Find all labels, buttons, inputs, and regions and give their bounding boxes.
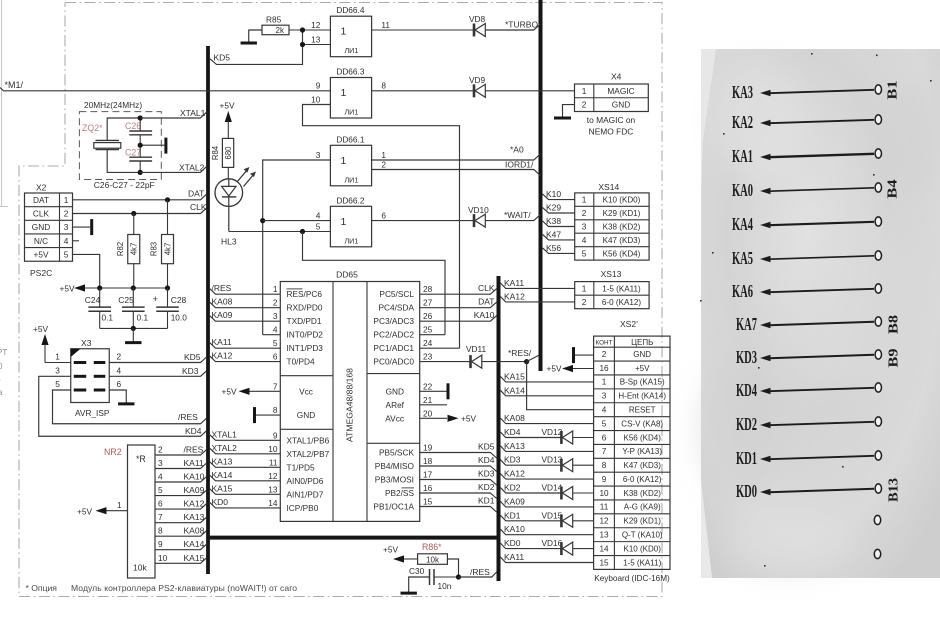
bottom note [26,583,298,593]
svg-text:K10: K10 [546,189,561,199]
svg-text:4k7: 4k7 [130,243,139,256]
svg-text:*RES/: *RES/ [508,348,532,358]
svg-text:4: 4 [316,210,321,220]
wire KD1 to XS2 row [500,510,593,527]
svg-text:KD1: KD1 [736,448,757,468]
svg-text:4: 4 [64,236,69,246]
svg-text:+5V: +5V [383,545,398,555]
svg-text:VD14: VD14 [542,483,563,493]
svg-text:KD2: KD2 [736,414,757,434]
diode VD10 [468,205,489,227]
svg-text:+5V: +5V [60,284,75,294]
svg-text:KD0: KD0 [212,497,229,507]
svg-text:C27: C27 [125,148,141,158]
connector XS14 [575,182,649,260]
resistor R83 [150,200,174,288]
svg-text:4: 4 [273,325,278,335]
svg-text:VD12: VD12 [542,427,563,437]
svg-text:*M1/: *M1/ [5,80,24,90]
svg-text:ЛИ1: ЛИ1 [344,108,358,117]
svg-text:KD4: KD4 [478,455,495,465]
svg-text:KA08: KA08 [212,297,233,307]
svg-text:9: 9 [602,475,607,484]
svg-text:KA12: KA12 [212,351,233,361]
svg-text:10: 10 [599,489,609,498]
svg-text:XS2’: XS2’ [620,319,638,329]
wire KA10 (DD65) to XS2 bus [420,310,497,321]
capacitor C28 (polar) [153,288,188,328]
diode VD11 [466,344,487,368]
wire KA11 DD65 [210,337,280,348]
overline SS [402,487,415,489]
svg-text:PC5/SCL: PC5/SCL [379,289,414,299]
wire KA08 to XS2 row [500,413,593,424]
wire DD66.3 pin10 to DD65 pin24 [303,105,460,349]
svg-text:12: 12 [599,517,609,526]
DD65 pin 1 RES/PC6 [273,284,323,299]
right bus (vertical) [539,0,543,371]
svg-text:RES/PC6: RES/PC6 [287,289,323,299]
svg-text:+5V: +5V [222,386,237,396]
DD65 pin 15 PB1/OC1A [373,497,432,512]
svg-text:KA2: KA2 [732,112,753,132]
wire X2 +5V [73,254,100,288]
svg-text:6-0 (KA12): 6-0 (KA12) [602,298,641,307]
wire CLK (DD65) to XS2 bus [420,283,497,294]
svg-text:5: 5 [55,379,60,389]
wire KD0 DD65 [210,497,280,508]
svg-text:11: 11 [269,457,278,467]
scanned page signal row KD2 [736,414,882,434]
svg-text:C24: C24 [85,295,101,305]
svg-text:KA09: KA09 [504,496,525,506]
svg-text:KA11: KA11 [212,337,232,347]
svg-text:1-5 (KA11): 1-5 (KA11) [602,284,641,293]
svg-text:PC4/SDA: PC4/SDA [378,303,414,313]
DD65 pin 9 XTAL1/PB6 [273,430,330,445]
svg-text:KA1: KA1 [732,146,753,166]
svg-text:13: 13 [599,530,609,539]
svg-text:4: 4 [116,365,121,375]
DD65 pin 12 AIN0/PD6 [268,471,324,486]
svg-text:15: 15 [599,558,609,567]
svg-text:K10 (KD0): K10 (KD0) [603,196,641,205]
svg-text:KA3: KA3 [732,82,753,102]
svg-text:14: 14 [599,544,609,553]
svg-text:ЛИ1: ЛИ1 [344,46,358,55]
svg-text:H-Ent (KA14): H-Ent (KA14) [618,392,666,401]
wire KA14 (NR2 pin 9) [155,539,207,550]
svg-text:XS13: XS13 [601,269,622,279]
svg-text:5: 5 [64,249,69,259]
connector X2 [25,183,73,279]
svg-text:Keyboard (IDC-16M): Keyboard (IDC-16M) [594,574,670,583]
svg-text:+5V: +5V [34,249,49,259]
svg-text:INT1/PD3: INT1/PD3 [287,343,324,353]
wire KA14 DD65 [210,470,280,481]
svg-text:B4: B4 [885,179,900,199]
svg-text:1: 1 [117,500,122,510]
wire DD65 pin24 stub [420,347,460,349]
svg-text:DAT: DAT [188,189,204,199]
svg-text:/RES: /RES [470,567,490,577]
svg-text:B13: B13 [886,478,901,502]
resistor R85 [249,15,289,42]
wire R86 to /RES node [447,559,458,577]
svg-text:+5V: +5V [77,507,92,517]
svg-text:DD66.1: DD66.1 [336,134,365,144]
svg-text:CLK: CLK [478,283,495,293]
wire KA12 to XS13 [500,291,574,302]
svg-text:4: 4 [602,405,607,414]
wire DD65 pin23 to VD11 [420,361,471,363]
wire KD2 (DD65) to XS2 bus [420,482,497,499]
capacitor C25 [118,288,148,328]
DD65 pin 11 T1/PD5 [269,457,315,472]
svg-text:8: 8 [158,526,163,536]
svg-text:9: 9 [316,81,321,91]
wire KA09 DD65 [210,310,280,321]
DD65 pin 2 RXD/PD0 [273,298,323,313]
ground (DD65 pin22) [420,383,448,399]
svg-text:VD9: VD9 [469,75,486,85]
wire KA11 to XS2 row [500,552,593,563]
svg-text:2: 2 [273,298,278,308]
svg-text:1: 1 [55,352,60,362]
connector X3 AVR_ISP [55,338,121,418]
svg-text:5: 5 [582,248,587,258]
svg-text:Q-T (KA10): Q-T (KA10) [622,530,663,539]
wire KD5 (DD65) to XS2 bus [420,442,497,459]
node XTAL2 [138,143,207,175]
bus link (horizontal) [207,536,501,540]
svg-text:3: 3 [273,311,278,321]
wire /RES DD65 [210,283,280,294]
svg-text:ARef: ARef [386,400,405,410]
svg-text:+5V: +5V [220,101,235,111]
svg-text:KD2: KD2 [478,482,495,492]
svg-text:GND: GND [612,100,630,110]
svg-text:1: 1 [340,216,346,228]
svg-text:IORD1/: IORD1/ [505,159,534,169]
wire KA15 to XS2 row [500,371,593,382]
svg-text:7: 7 [273,381,278,391]
svg-text:VD16: VD16 [542,538,563,548]
svg-text:KD0: KD0 [504,538,521,548]
+5V feed R84 [220,101,235,139]
svg-text:3: 3 [158,458,163,468]
svg-text:B-Sp (KA15): B-Sp (KA15) [620,378,665,387]
wire KA13 DD65 [210,456,280,467]
svg-text:5: 5 [158,485,163,495]
svg-text:KA15: KA15 [184,553,205,563]
wire KD4 (DD65) to XS2 bus [420,455,497,472]
DD65 pin 13 AIN1/PD7 [268,484,324,499]
capacitor C27 [125,145,152,172]
wire /RES (X3 pin5) [53,390,207,424]
svg-text:12: 12 [268,471,278,481]
svg-text:13: 13 [268,484,278,494]
svg-text:10n: 10n [438,581,452,591]
svg-text:KA15: KA15 [212,483,233,493]
connector X4 [575,72,649,137]
resistor network NR2 [104,445,155,578]
svg-text:10.0: 10.0 [171,312,188,322]
DD65 pin 19 PB5/SCK [379,443,433,458]
svg-text:0.1: 0.1 [102,312,114,322]
svg-text:+5V: +5V [33,324,48,334]
+5V feed R86 [383,545,418,563]
svg-text:8: 8 [381,81,386,91]
svg-text:NR2: NR2 [104,447,122,457]
svg-text:18: 18 [423,456,433,466]
svg-text:PB3/MOSI: PB3/MOSI [375,475,414,485]
svg-text:КОНТ: КОНТ [596,340,613,347]
svg-text:7: 7 [602,447,607,456]
svg-text:KA15: KA15 [504,371,525,381]
wire K38 to XS14 [543,216,575,227]
DD65 pin 4 INT0/PD2 [273,325,323,340]
wire CLK [73,202,207,216]
wire DD66.4 output to VD8 [372,29,474,31]
svg-text:KA13: KA13 [184,512,205,522]
svg-text:6: 6 [381,210,386,220]
net *WAIT/ [485,210,540,220]
svg-text:RXD/PD0: RXD/PD0 [287,303,323,313]
svg-text:17: 17 [423,470,433,480]
svg-text:K56 (KD4): K56 (KD4) [603,249,641,258]
svg-text:KD4: KD4 [185,426,202,436]
svg-text:K38 (KD2): K38 (KD2) [624,489,662,498]
svg-text:Модуль контроллера PS2-клавиат: Модуль контроллера PS2-клавиатуры (noWAI… [71,583,297,593]
svg-text:VD15: VD15 [542,510,563,520]
svg-text:KD3: KD3 [182,366,199,376]
svg-text:X3: X3 [81,338,92,348]
svg-text:*A0: *A0 [510,145,524,155]
svg-text:GND: GND [32,222,50,232]
+5V feed DD65 pin7 [222,386,281,396]
ground (X3 pin6) [109,390,134,404]
wire KA09 to XS2 row [500,496,593,507]
svg-text:X2: X2 [36,183,47,193]
svg-text:6: 6 [158,499,163,509]
svg-text:1: 1 [602,378,607,387]
wire KA10 to XS2 row [500,524,593,535]
wire KD3 (DD65) to XS2 bus [420,469,497,486]
svg-text:+5V: +5V [635,364,650,373]
wire KA15 (NR2 pin 10) [155,553,207,564]
svg-text:16: 16 [423,483,433,493]
svg-text:2: 2 [582,297,587,307]
svg-text:9: 9 [273,430,278,440]
svg-text:20MHz(24MHz): 20MHz(24MHz) [84,100,142,110]
svg-text:8: 8 [602,461,607,470]
svg-text:*R: *R [136,454,146,464]
svg-text:N/C: N/C [34,236,48,246]
svg-text:3: 3 [602,392,607,401]
svg-text:GND: GND [297,410,315,420]
svg-text:DD66.3: DD66.3 [336,67,365,77]
scanned page signal row KA2 [732,112,882,132]
svg-text:RESET: RESET [629,405,656,414]
scanned page signal row KA4 [732,214,882,234]
wire KA15 DD65 [210,483,280,494]
svg-text:6: 6 [602,433,607,442]
DD65 pin 3 TXD/PD1 [273,311,322,326]
svg-text:PB1/OC1A: PB1/OC1A [373,502,414,512]
inverter DD66.1 [316,134,387,186]
svg-text:DD65: DD65 [336,270,358,280]
wire KA12 (NR2 pin 6) [155,499,207,510]
scanned page signal row KA0 [732,179,900,200]
schematic sheet dash-dot frame [19,3,662,597]
wire LED/DD66.2 pin5 to DD65 pin25 [229,229,445,335]
svg-text:5: 5 [273,338,278,348]
left bus (vertical) [206,46,210,574]
DD65 pin 10 XTAL2/PB7 [268,444,329,459]
svg-text:PC0/ADC0: PC0/ADC0 [373,357,414,367]
inverter DD66.2 [316,195,387,247]
svg-text:Vcc: Vcc [299,386,313,396]
net /RES to XS2 bus [456,567,497,580]
svg-text:/RES: /RES [178,412,198,422]
DD65 pin 27 PC4/SDA [378,298,432,313]
DD65 pin 24 PC1/ADC1 [373,338,432,353]
scanned page signal row KA7 [736,314,901,334]
svg-text:15: 15 [423,497,433,507]
X2 pin4 N/C stub [73,240,80,242]
svg-text:K38: K38 [546,216,561,226]
ground (C30) [401,577,430,593]
svg-text:INT0/PD2: INT0/PD2 [287,330,324,340]
svg-text:10k: 10k [133,563,147,573]
scanned page signal row KD0 [736,478,901,502]
DD65 pin 25 PC2/ADC2 [373,325,432,340]
svg-text:KA12: KA12 [184,499,205,509]
svg-text:KA12: KA12 [504,291,525,301]
scanned page signal row KA5 [732,248,882,268]
svg-text:+: + [153,294,159,305]
svg-text:1: 1 [381,150,386,160]
svg-text:XS14: XS14 [598,182,619,192]
inverter DD66.3 [311,67,386,119]
svg-text:/RES: /RES [212,283,232,293]
wire KA08 DD65 [210,297,280,308]
node XTAL1 [138,108,207,121]
wire KD2 to XS2 row [500,483,593,500]
wire DD65 pin4 to gate inputs [260,160,330,335]
svg-text:1: 1 [340,26,346,38]
DD65 pin21 stub [420,404,447,406]
svg-text:KD3: KD3 [478,469,495,479]
svg-text:K10 (KD0): K10 (KD0) [624,544,662,553]
wire /RES (NR2 pin 2) [155,445,207,456]
wire KA12 DD65 [210,351,280,362]
LED HL3 [215,167,256,247]
svg-text:R83: R83 [150,242,159,256]
svg-text:CLK: CLK [33,208,50,218]
wire KD4 to XS2 row [500,427,593,444]
svg-text:XTAL2/PB7: XTAL2/PB7 [287,449,330,459]
svg-text:KA11: KA11 [504,552,524,562]
wire KD4 (X3 pin3) [39,376,207,436]
svg-text:11: 11 [381,20,390,30]
svg-text:KD5: KD5 [478,442,495,452]
svg-text:3: 3 [582,221,587,231]
scanned page signal row KA6 [732,281,882,301]
svg-text:DAT: DAT [33,195,49,205]
svg-text:KA11: KA11 [184,458,204,468]
wire VD9 to X4 [485,90,574,92]
svg-text:ICP/PB0: ICP/PB0 [287,503,319,513]
svg-text:K56 (KD4): K56 (KD4) [624,433,662,442]
wire KD5 (X3 pin2) [109,352,206,363]
svg-text:DD66.2: DD66.2 [336,195,365,205]
svg-text:X4: X4 [611,72,622,82]
svg-text:KD3: KD3 [504,455,521,465]
svg-text:KA10: KA10 [184,472,205,482]
svg-text:AIN0/PD6: AIN0/PD6 [287,476,324,486]
svg-text:PC1/ADC1: PC1/ADC1 [373,343,414,353]
svg-text:KA7: KA7 [736,314,757,334]
svg-text:1-5 (KA11): 1-5 (KA11) [623,558,661,567]
svg-text:A-G (KA9): A-G (KA9) [624,503,661,512]
svg-text:KA14: KA14 [504,385,525,395]
DD65 pin 23 PC0/ADC0 [373,352,432,367]
capacitor C24 [85,288,114,328]
svg-text:12: 12 [311,20,321,30]
left page edge artifacts [0,0,8,397]
svg-text:27: 27 [423,298,433,308]
svg-text:6: 6 [116,379,121,389]
svg-text:2: 2 [381,159,386,169]
svg-text:KD1: KD1 [478,496,495,506]
svg-text:TXD/PD1: TXD/PD1 [287,316,322,326]
scanned page signal row KD1 [736,448,882,468]
svg-text:B8: B8 [886,314,901,334]
wire KD5 to DD66.4 [210,27,331,64]
svg-text:KA08: KA08 [504,413,525,423]
svg-text:/RES: /RES [184,445,204,455]
svg-text:KD3: KD3 [736,347,757,367]
svg-text:26: 26 [423,311,433,321]
svg-text:3: 3 [316,150,321,160]
DD65 pin 5 INT1/PD3 [273,338,323,353]
svg-text:R86*: R86* [422,542,442,552]
svg-text:1: 1 [64,195,69,205]
net *TURBO [485,20,540,31]
svg-text:1: 1 [340,155,346,167]
ground (XS2 pin2) [574,347,594,363]
svg-text:KA0: KA0 [732,180,753,200]
svg-text:14: 14 [268,498,278,508]
net *M1/ [0,80,330,91]
capacitor C26 [125,118,152,145]
svg-text:1: 1 [582,283,587,293]
svg-text:6: 6 [273,352,278,362]
svg-text:KD5: KD5 [184,352,201,362]
resistor R84 [211,138,234,178]
svg-text:KA08: KA08 [184,526,205,536]
connector XS2' [594,319,670,583]
+5V feed to X3 pin1 [33,324,71,363]
svg-text:PT: PT [0,348,7,357]
svg-text:KA13: KA13 [212,456,233,466]
svg-text:7: 7 [158,512,163,522]
svg-text:2k: 2k [276,26,285,35]
svg-text:R82: R82 [116,242,125,256]
svg-text:1: 1 [340,87,346,99]
